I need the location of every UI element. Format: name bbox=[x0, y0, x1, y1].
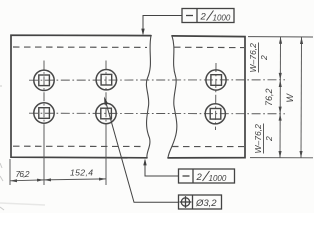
svg-text:152,4: 152,4 bbox=[70, 168, 93, 178]
svg-text:1000: 1000 bbox=[213, 14, 231, 23]
svg-text:76,2: 76,2 bbox=[264, 88, 274, 106]
svg-text:2: 2 bbox=[196, 172, 203, 183]
svg-text:W–76,2: W–76,2 bbox=[253, 124, 263, 154]
svg-text:W: W bbox=[285, 93, 295, 103]
svg-text:2: 2 bbox=[200, 12, 207, 23]
svg-text:2: 2 bbox=[259, 55, 269, 61]
svg-text:Ø3,2: Ø3,2 bbox=[195, 198, 217, 209]
svg-text:W–76,2: W–76,2 bbox=[248, 43, 258, 73]
svg-text:76,2: 76,2 bbox=[16, 169, 30, 179]
svg-text:1000: 1000 bbox=[209, 174, 227, 183]
svg-text:2: 2 bbox=[264, 136, 274, 142]
